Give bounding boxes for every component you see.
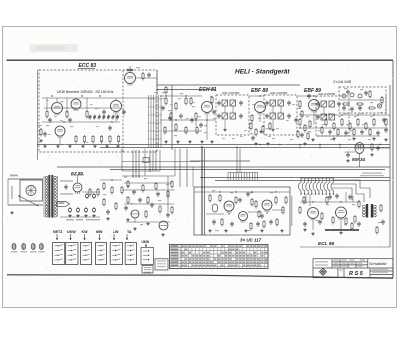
svg-text:KW: KW <box>82 230 89 234</box>
svg-text:TA: TA <box>127 230 132 234</box>
svg-text:EBF 89: EBF 89 <box>251 88 268 94</box>
svg-text:EM 34: EM 34 <box>352 157 366 162</box>
svg-text:LKR 1/15/25Z: LKR 1/15/25Z <box>222 91 240 95</box>
svg-text:2×OA 548: 2×OA 548 <box>332 79 352 84</box>
svg-text:LKR 1/15/25Z: LKR 1/15/25Z <box>270 91 288 95</box>
svg-text:UKW: UKW <box>67 230 76 234</box>
svg-text:ECH 81: ECH 81 <box>199 87 217 93</box>
svg-text:UKW: UKW <box>142 240 150 244</box>
svg-text:R S 5: R S 5 <box>349 271 364 277</box>
svg-text:LW: LW <box>113 230 119 234</box>
svg-text:3× UC 117: 3× UC 117 <box>240 238 262 243</box>
svg-text:LKR 2/15/25Z: LKR 2/15/25Z <box>318 92 336 96</box>
svg-text:NETZ: NETZ <box>53 230 63 234</box>
svg-text:ECL 86: ECL 86 <box>318 241 335 247</box>
svg-text:Schaltbild: Schaltbild <box>369 261 387 266</box>
svg-text:MW: MW <box>96 230 103 234</box>
svg-text:HELI - Standgerät: HELI - Standgerät <box>235 69 290 76</box>
